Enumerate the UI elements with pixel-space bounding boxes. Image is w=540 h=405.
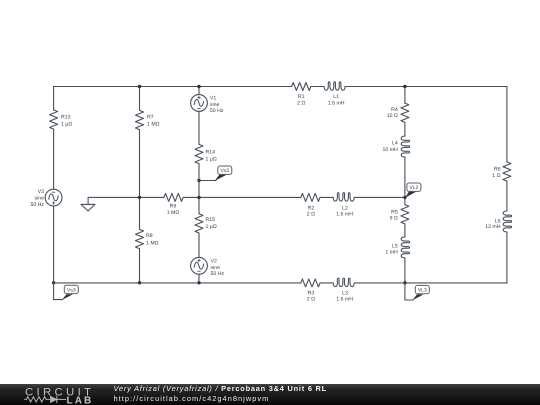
wire column5 upper bbox=[506, 87, 508, 162]
source V1 sine bbox=[194, 99, 203, 106]
svg-text:VL2: VL2 bbox=[409, 185, 418, 191]
svg-text:1 MΩ: 1 MΩ bbox=[167, 210, 180, 216]
inductor L4 bbox=[401, 136, 409, 157]
wire top between R1 and L1 bbox=[311, 86, 324, 88]
wire column2 lower bbox=[139, 249, 141, 284]
resistor R5 bbox=[401, 205, 409, 224]
inductor L2 bbox=[333, 193, 354, 201]
flag VL3 bbox=[405, 283, 429, 301]
flag Vs3 bbox=[54, 283, 79, 300]
node top V1 bbox=[197, 85, 200, 88]
svg-text:R14: R14 bbox=[206, 149, 216, 155]
svg-text:1 MΩ: 1 MΩ bbox=[146, 240, 159, 246]
svg-text:L1: L1 bbox=[333, 94, 339, 100]
svg-text:2 Ω: 2 Ω bbox=[307, 211, 315, 217]
svg-text:1.6 mH: 1.6 mH bbox=[336, 296, 353, 302]
resistor R1 bbox=[292, 83, 311, 91]
source V2 minus sign bbox=[198, 270, 201, 272]
svg-text:R13: R13 bbox=[61, 114, 71, 120]
svg-text:V2: V2 bbox=[211, 259, 217, 265]
wire column3 R14 to node Vs2 bbox=[198, 164, 200, 198]
svg-text:VL3: VL3 bbox=[418, 288, 427, 294]
source V1 plus sign bbox=[198, 96, 201, 99]
resistor R15 bbox=[195, 214, 203, 233]
resistor R6 bbox=[503, 162, 511, 181]
wire column3 V1 to R14 bbox=[198, 111, 200, 144]
svg-text:1 µΩ: 1 µΩ bbox=[206, 224, 217, 230]
source V1 circle bbox=[191, 95, 208, 112]
wire column4 L5 to bottom bbox=[404, 258, 406, 283]
node middle R7R8 bbox=[138, 196, 141, 199]
wire left column R13 to V3 bbox=[53, 129, 55, 189]
svg-text:Vs3: Vs3 bbox=[67, 287, 76, 293]
source V3 minus sign bbox=[52, 191, 55, 193]
wire bottom rail right bbox=[354, 282, 507, 284]
wire column4 stub top bbox=[404, 87, 406, 104]
wire column3 stub top bbox=[198, 87, 200, 95]
node bottom VL3 bbox=[403, 281, 406, 284]
svg-text:50 Hz: 50 Hz bbox=[30, 202, 44, 208]
node Vs2 attach bbox=[197, 179, 200, 182]
svg-text:50 Hz: 50 Hz bbox=[211, 271, 225, 277]
source V3 plus sign bbox=[52, 202, 55, 205]
svg-text:R7: R7 bbox=[147, 114, 154, 120]
wire left column upper bbox=[53, 87, 55, 110]
node top R7 bbox=[138, 85, 141, 88]
source V2 sine bbox=[194, 262, 203, 269]
caption line 1 bbox=[114, 384, 327, 393]
caption line 2 bbox=[114, 394, 270, 403]
svg-text:L4: L4 bbox=[392, 141, 398, 147]
wire column3 V2 to bottom bbox=[198, 274, 200, 283]
wire column3 R15 to V2 bbox=[198, 233, 200, 257]
wire column4 L4 to node bbox=[404, 157, 406, 197]
wire column4 R4 to L4 bbox=[404, 122, 406, 136]
svg-text:1 MΩ: 1 MΩ bbox=[147, 121, 160, 127]
svg-text:2 Ω: 2 Ω bbox=[297, 101, 305, 107]
resistor R8 bbox=[136, 229, 144, 248]
svg-text:sine: sine bbox=[211, 265, 221, 271]
node middle VL2 bbox=[403, 196, 406, 199]
resistor R2 bbox=[301, 193, 320, 201]
resistor R9 bbox=[164, 193, 183, 201]
ground stub bbox=[87, 197, 89, 204]
source V2 plus sign bbox=[198, 259, 201, 262]
svg-text:10 Ω: 10 Ω bbox=[387, 113, 398, 119]
svg-text:10 mH: 10 mH bbox=[383, 147, 399, 153]
wire column2 upper bbox=[139, 87, 141, 111]
inductor L5 bbox=[401, 237, 409, 258]
wire bottom R3 to L3 bbox=[320, 282, 333, 284]
wire column5 R6 to L6 bbox=[506, 181, 508, 211]
resistor R14 bbox=[195, 144, 203, 163]
wire middle L2 to node bbox=[354, 196, 405, 198]
CircuitLab logo bbox=[0, 384, 100, 405]
svg-text:LAB: LAB bbox=[67, 396, 94, 405]
svg-text:1 µΩ: 1 µΩ bbox=[61, 121, 72, 127]
svg-text:1 µΩ: 1 µΩ bbox=[206, 156, 217, 162]
wire column4 R5 to L5 bbox=[404, 224, 406, 237]
source V2 circle bbox=[191, 257, 208, 274]
node bottom R8 bbox=[138, 281, 141, 284]
node middle R9R15 bbox=[197, 196, 200, 199]
svg-text:sine: sine bbox=[210, 102, 220, 108]
svg-text:1.6 mH: 1.6 mH bbox=[336, 211, 353, 217]
wire top rail left bbox=[54, 86, 292, 88]
svg-text:R1: R1 bbox=[298, 94, 305, 100]
svg-text:1 mH: 1 mH bbox=[385, 249, 398, 255]
svg-text:sine: sine bbox=[34, 196, 44, 202]
wire column4 node to R5 bbox=[404, 197, 406, 204]
wire column2 middle bbox=[139, 130, 141, 230]
wire column5 lower bbox=[506, 232, 508, 283]
svg-text:V3: V3 bbox=[38, 189, 44, 195]
svg-text:R8: R8 bbox=[146, 233, 153, 239]
inductor L3 bbox=[333, 278, 354, 286]
wire middle rail from ground to R9 bbox=[88, 196, 164, 198]
wire top rail right bbox=[345, 86, 507, 88]
svg-text:1.6 mH: 1.6 mH bbox=[328, 101, 345, 107]
resistor R13 bbox=[50, 110, 58, 129]
svg-text:V1: V1 bbox=[210, 95, 216, 101]
svg-text:R15: R15 bbox=[206, 217, 216, 223]
flag VL2 bbox=[405, 183, 421, 198]
node top R4 bbox=[403, 85, 406, 88]
inductor L6 bbox=[503, 211, 511, 232]
source V3 circle bbox=[45, 189, 62, 206]
resistor R3 bbox=[301, 279, 320, 287]
footer bar bbox=[0, 384, 540, 405]
svg-text:9 Ω: 9 Ω bbox=[390, 216, 398, 222]
svg-text:R4: R4 bbox=[391, 107, 398, 113]
wire middle R2 to L2 bbox=[320, 196, 333, 198]
flag Vs2 bbox=[199, 166, 232, 181]
wire left column lower bbox=[53, 206, 55, 283]
svg-text:50 Hz: 50 Hz bbox=[210, 108, 224, 114]
svg-text:1 Ω: 1 Ω bbox=[492, 173, 500, 179]
svg-text:12 mH: 12 mH bbox=[485, 224, 501, 230]
inductor L1 bbox=[324, 82, 345, 90]
svg-text:R9: R9 bbox=[170, 204, 177, 210]
wire column3 mid to R15 bbox=[198, 197, 200, 213]
resistor R4 bbox=[401, 103, 409, 122]
node bottom V2 bbox=[197, 281, 200, 284]
svg-text:R6: R6 bbox=[494, 167, 501, 173]
resistor R7 bbox=[136, 110, 144, 129]
source V1 minus sign bbox=[198, 107, 201, 109]
source V3 sine bbox=[49, 194, 58, 201]
wire middle R9 to R2 bbox=[183, 196, 301, 198]
node bottom Vs3 bbox=[52, 281, 55, 284]
svg-text:Vs2: Vs2 bbox=[220, 168, 229, 174]
wire bottom rail left bbox=[54, 282, 301, 284]
svg-text:2 Ω: 2 Ω bbox=[307, 296, 315, 302]
ground triangle bbox=[81, 204, 95, 211]
